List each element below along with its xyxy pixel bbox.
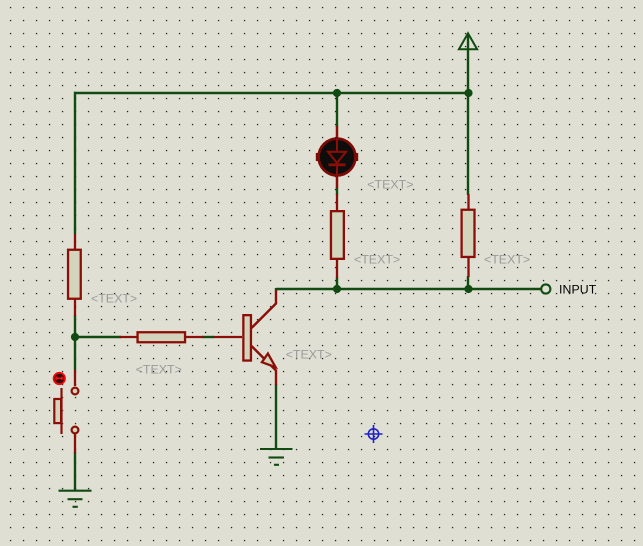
junction node A [71, 333, 79, 341]
label R1 value <TEXT> [91, 292, 137, 306]
transistor Q1 emitter arrow [262, 354, 276, 368]
power symbol VCC arrow [459, 33, 477, 49]
wire below R4 to node C [467, 276, 469, 290]
resistor R3 [331, 211, 344, 259]
junction node at top of LED branch [333, 89, 341, 97]
transistor Q1 collector pin [252, 290, 277, 328]
resistor R4 pin top [467, 194, 469, 210]
wire node A to R2 left [74, 336, 121, 338]
led D1 pin bottom [336, 174, 339, 188]
resistor R3 pin bottom [336, 259, 338, 278]
wire left vertical from top corner down to R1 [74, 92, 76, 234]
resistor R2 pin left [120, 336, 137, 338]
resistor R3 pin top [336, 194, 338, 211]
button SW1 pin top [74, 370, 76, 386]
button SW1 body [54, 399, 61, 423]
junction node C [464, 285, 472, 293]
svg-text:<TEXT>: <TEXT> [136, 363, 182, 377]
label terminal INPUT [559, 282, 597, 296]
svg-text:<TEXT>: <TEXT> [367, 178, 413, 192]
wire emitter to ground [275, 384, 277, 448]
wire top horizontal net VCC [74, 92, 469, 94]
ground middle [260, 449, 293, 465]
wire right vertical from power to R4 [467, 34, 469, 196]
resistor R1 [68, 250, 81, 299]
resistor R2 [138, 332, 186, 342]
transistor Q1 base pin [213, 336, 242, 338]
ground left [59, 491, 92, 507]
label Q1 value <TEXT> [286, 348, 332, 362]
wire LED top [336, 92, 338, 127]
wire node A down to button [74, 336, 76, 370]
label R2 value <TEXT> [136, 363, 182, 377]
junction node at top of right branch [464, 89, 472, 97]
wire below R1 to node A [74, 315, 76, 337]
svg-text:<TEXT>: <TEXT> [484, 253, 530, 267]
button SW1 actuator bar [60, 388, 62, 434]
label R4 value <TEXT> [484, 253, 530, 267]
wire collector corner [275, 288, 277, 291]
button SW1 contact bottom [72, 427, 79, 434]
wire button to ground [74, 452, 76, 490]
svg-text:<TEXT>: <TEXT> [286, 348, 332, 362]
button SW1 pin bottom [74, 434, 76, 453]
wire middle horizontal net INPUT [276, 288, 541, 290]
svg-text:<TEXT>: <TEXT> [91, 292, 137, 306]
button SW1 contact top [72, 388, 79, 395]
resistor R4 pin bottom [467, 257, 469, 277]
junction node B [333, 285, 341, 293]
led D1 pin top [336, 126, 339, 140]
wire below R3 to node B [336, 277, 338, 290]
terminal INPUT [541, 284, 550, 293]
resistor R1 pin bottom [74, 299, 76, 316]
svg-text:INPUT: INPUT [559, 282, 597, 296]
resistor R1 pin top [74, 234, 76, 250]
transistor Q1 body bar [243, 315, 251, 360]
transistor Q1 emitter pin [252, 346, 277, 385]
resistor R2 pin right [185, 336, 203, 338]
wire between R2 and Q1 base [202, 336, 214, 338]
button SW1 interactive marker [54, 373, 65, 384]
label R3 value <TEXT> [354, 253, 400, 267]
label D1 value <TEXT> [367, 178, 413, 192]
svg-text:<TEXT>: <TEXT> [354, 253, 400, 267]
led D1 [316, 139, 358, 176]
resistor R4 [462, 210, 475, 257]
wire between LED and R3 [336, 187, 338, 195]
origin marker [365, 425, 383, 443]
